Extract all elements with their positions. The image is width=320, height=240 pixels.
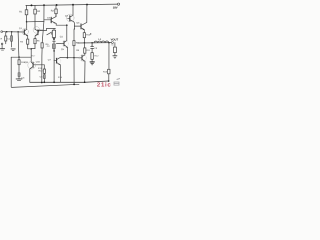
wire R11 to Q8 collector: [84, 53, 86, 55]
transistor Q4 envelope: [67, 14, 75, 22]
node H7 x92.1: [91, 42, 93, 44]
transistor Q1 envelope: [22, 28, 29, 35]
resistor R13: [108, 69, 110, 74]
ground input: [0, 48, 4, 50]
wire base bus y57.8: [60, 57, 82, 59]
wire C6 to ground: [18, 76, 20, 78]
svg-text:R11: R11: [86, 49, 90, 51]
wire NFB node to R18: [18, 57, 20, 60]
svg-text:Q3: Q3: [47, 17, 50, 19]
node rail A x41.8: [41, 82, 43, 84]
wire H6: [56, 24, 67, 26]
wire C2 to node: [53, 49, 55, 51]
label mark x90.3: [90, 33, 91, 34]
transistor Q2 envelope: [33, 27, 40, 34]
node rail junction x87: [86, 4, 88, 6]
svg-text:Q2: Q2: [40, 29, 43, 31]
wire NFB top: [11, 56, 31, 58]
svg-text:R18: R18: [21, 61, 25, 63]
svg-text:Q7: Q7: [48, 59, 51, 61]
svg-text:18V: 18V: [113, 6, 118, 9]
terminal +18V: [117, 3, 119, 5]
svg-text:R5: R5: [37, 40, 40, 42]
resistor Rin: [5, 36, 7, 41]
transistor Q9 envelope: [28, 61, 36, 69]
transistor Q8: [81, 55, 83, 60]
wire zobel from node: [91, 43, 93, 47]
wire C5 to rail: [43, 79, 45, 83]
node bus x74: [73, 57, 74, 58]
resistor R1: [25, 10, 28, 15]
svg-text:R4: R4: [20, 41, 23, 43]
svg-text:21ic: 21ic: [97, 82, 112, 89]
transistor Q9: [32, 63, 34, 68]
wire ground bus B: [11, 57, 79, 87]
diode D1: [53, 38, 56, 41]
wire rail to R3: [55, 5, 57, 9]
node NFB x19: [18, 56, 20, 58]
svg-text:R2: R2: [37, 10, 40, 13]
watermark grey mark top: [117, 78, 120, 81]
wire R8 to bus: [73, 46, 75, 85]
svg-text:8Ω: 8Ω: [111, 44, 114, 46]
svg-text:R9: R9: [76, 49, 79, 51]
transistor Q5 envelope: [62, 41, 69, 48]
resistor R4 emitter: [27, 39, 29, 44]
svg-text:C3: C3: [94, 47, 97, 49]
node bus x67.3: [67, 57, 69, 59]
wire Q4em column to R8: [73, 29, 75, 40]
wire tail down to Q9: [30, 49, 32, 61]
ground zobel: [90, 61, 94, 63]
svg-text:Q5: Q5: [61, 48, 64, 50]
svg-text:R14: R14: [39, 70, 43, 72]
node rail A x108.6: [108, 80, 110, 82]
wire R3 bottom to Q3 collector: [55, 14, 57, 17]
node input x6.7: [6, 31, 8, 33]
node x38.5: [38, 30, 40, 32]
inductor L1: [94, 41, 109, 43]
resistor RL load: [114, 47, 117, 53]
resistor R8: [73, 41, 75, 46]
transistor Q5: [63, 41, 65, 46]
node rail junction x57: [56, 4, 58, 6]
wire H5 pot top: [47, 28, 56, 30]
wire RL to ground: [114, 53, 116, 56]
svg-text:R15: R15: [38, 67, 42, 69]
svg-text:C4: C4: [60, 36, 63, 39]
terminal output: [111, 42, 113, 44]
wire Q4 emitter to Q6 base: [74, 25, 81, 27]
resistor R6: [41, 43, 43, 48]
svg-text:C5: C5: [40, 76, 43, 78]
node input x18.1: [17, 31, 18, 32]
resistor R12: [91, 53, 93, 60]
transistor Q6: [80, 24, 82, 29]
wire Q4 emitter column arrow: [74, 29, 75, 30]
svg-text:R16: R16: [58, 76, 62, 78]
wire R6 down to bottom rail: [41, 48, 43, 83]
wire rail column x44 down: [42, 5, 44, 43]
node rail A x84.5: [84, 81, 86, 83]
svg-text:R: R: [1, 38, 3, 40]
ground RL: [113, 55, 117, 57]
node rail A x44.3: [43, 81, 45, 83]
node H2 left: [26, 21, 28, 23]
transistor Q7: [56, 58, 58, 63]
node L1 right x108.95: [108, 42, 110, 44]
transistor Q7 envelope: [54, 58, 61, 65]
transistor Q1: [23, 30, 25, 35]
wire R2 bottom to Q2 collector: [34, 14, 36, 29]
wire C3 to R12: [91, 45, 93, 53]
wire Rin leads: [5, 32, 7, 44]
ground C1: [11, 48, 15, 50]
wire Q9 base column down: [43, 65, 45, 69]
resistor R5 emitter: [34, 39, 36, 44]
capacitor C5: [43, 75, 45, 79]
svg-text:R3: R3: [51, 9, 54, 12]
potentiometer RV1: [52, 30, 55, 37]
svg-text:Q4: Q4: [65, 15, 68, 17]
terminal input ground: [1, 43, 3, 45]
node tail x31.2: [30, 48, 32, 50]
transistor Q4: [69, 16, 71, 21]
wire load branch: [114, 43, 116, 48]
svg-text:R12: R12: [94, 55, 98, 57]
watermark grey logo: [114, 82, 120, 86]
resistor R10: [83, 33, 85, 38]
resistor R2: [34, 9, 37, 14]
ground NFB: [16, 78, 22, 80]
node x54.1 y50.9: [53, 50, 55, 52]
wire rail to R1: [25, 6, 27, 10]
wire H4 Q2 collector to pot: [39, 28, 47, 30]
svg-text:R1: R1: [19, 10, 22, 13]
node rail junction x31.5: [31, 4, 33, 6]
wire input: [3, 31, 25, 33]
wire terminal to ground: [1, 45, 3, 49]
node output x84.4: [84, 42, 86, 44]
potentiometer wiper: [47, 32, 52, 35]
wire rail to R2: [34, 5, 36, 9]
wire L1 node down to R13: [108, 43, 110, 70]
resistor R3: [55, 9, 57, 14]
svg-text:VOUT: VOUT: [111, 38, 119, 41]
wire VAS column node to Q7 base: [53, 49, 55, 83]
svg-text:Q6: Q6: [76, 22, 79, 24]
node rail B x74.1: [73, 84, 75, 86]
capacitor C6: [18, 73, 20, 77]
capacitor C2: [52, 44, 55, 49]
wire RE tails join: [28, 44, 35, 49]
svg-text:R13: R13: [103, 71, 107, 73]
wire output node down to R11: [84, 43, 86, 48]
node rail junction x73: [72, 4, 74, 6]
svg-text:Q1: Q1: [19, 27, 22, 29]
node rail A x54.1: [53, 81, 55, 83]
svg-text:L1: L1: [98, 38, 101, 41]
resistor R11: [84, 48, 86, 53]
wire R10 to output node: [83, 38, 85, 43]
svg-text:R17: R17: [32, 55, 36, 57]
wire R12 to ground: [91, 59, 93, 61]
svg-text:Q9: Q9: [25, 61, 28, 63]
wire R1 bottom to node: [26, 15, 28, 22]
wire NFB from input: [17, 32, 20, 57]
wire bottom rail A: [30, 81, 109, 82]
svg-text:Q10: Q10: [36, 61, 40, 63]
svg-text:R8: R8: [76, 42, 79, 44]
wire H2: [27, 21, 44, 23]
wire R13 to rail: [108, 74, 110, 81]
terminal input: [1, 31, 3, 33]
transistor Q2: [37, 30, 39, 35]
capacitor C3: [91, 46, 94, 48]
resistor R18: [18, 60, 20, 65]
wire R14 to C5: [43, 73, 45, 74]
svg-text:R10: R10: [86, 34, 90, 36]
transistor Q3: [50, 17, 52, 23]
wire C1 leads: [11, 32, 13, 47]
wire R18 to C6: [18, 65, 20, 73]
wire x66.8 down to Q5 collector: [66, 25, 68, 40]
svg-text:C1: C1: [7, 38, 10, 40]
svg-text:C6: C6: [22, 77, 25, 79]
node input x11.7: [11, 31, 13, 33]
capacitor C1: [10, 36, 12, 41]
wire output H7: [78, 42, 112, 44]
svg-text:C2: C2: [47, 45, 50, 47]
transistor Q8 envelope: [79, 54, 86, 61]
node H6 right: [66, 24, 68, 26]
wire top supply rail: [26, 4, 118, 5]
resistor R14: [43, 69, 45, 73]
node rail junction x44: [43, 4, 45, 6]
